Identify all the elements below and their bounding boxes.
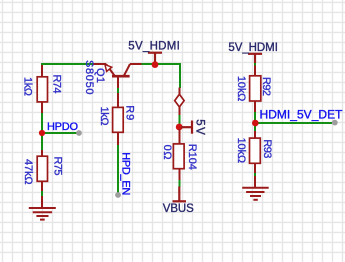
power port 5V_HDMI (left) xyxy=(148,53,162,64)
svg-text:R9: R9 xyxy=(123,105,135,120)
collector stub xyxy=(130,63,142,65)
svg-text:5V_HDMI: 5V_HDMI xyxy=(228,42,278,54)
power port 5V xyxy=(181,121,192,134)
svg-text:R92: R92 xyxy=(260,77,272,96)
ground (right) xyxy=(242,176,269,200)
power port VBUS (bar style, downward) xyxy=(173,187,187,202)
wire: HPDO stub xyxy=(42,132,77,134)
wire: R93 bottom to ground xyxy=(254,172,256,178)
svg-text:R74: R74 xyxy=(50,75,62,94)
svg-text:0Ω: 0Ω xyxy=(161,145,173,160)
wire: Q1 base to R9 xyxy=(117,87,119,95)
base bar xyxy=(112,75,130,78)
svg-text:1kΩ: 1kΩ xyxy=(98,107,110,126)
transistor Q1 (S8050) xyxy=(93,64,142,88)
no-connect diamond symbol xyxy=(175,94,184,107)
wire: junction to R104 top xyxy=(179,129,181,136)
resistor R93 xyxy=(250,131,261,173)
svg-text:5V_HDMI: 5V_HDMI xyxy=(128,40,180,52)
wire: R104 bottom to VBUS port xyxy=(179,179,181,187)
resistor R104 xyxy=(173,129,184,180)
wire: HDMI_5V_DET stub xyxy=(255,122,332,124)
svg-text:S8050: S8050 xyxy=(83,60,95,95)
open end marker (gray) HPDO xyxy=(76,130,82,136)
open end marker (gray) HDMI_5V_DET xyxy=(332,120,338,126)
emitter diagonal xyxy=(106,64,115,76)
svg-text:HPDO: HPDO xyxy=(47,121,78,133)
base lead xyxy=(117,77,119,88)
junction HPDO node xyxy=(39,130,45,136)
svg-text:R75: R75 xyxy=(52,157,64,176)
resistor R75 xyxy=(37,150,47,191)
wire: R92 bottom through HDMI_5V_DET junction to R93 xyxy=(254,111,256,132)
svg-text:5V: 5V xyxy=(193,119,205,135)
power port 5V_HDMI (right) xyxy=(248,54,262,63)
diamond bottom pin stub xyxy=(179,107,181,116)
wire: R75 bottom to ground xyxy=(41,190,43,198)
junction at 5V_HDMI xyxy=(152,61,159,68)
junction at 5V node xyxy=(176,124,183,131)
diamond top pin stub xyxy=(179,88,181,95)
resistor R74 xyxy=(37,65,47,113)
emitter arrow xyxy=(105,64,112,71)
wire: main horizontal from R74 top to Q1 emitter xyxy=(42,64,93,67)
svg-text:HPD_EN: HPD_EN xyxy=(119,152,131,195)
svg-text:1kΩ: 1kΩ xyxy=(22,77,34,96)
resistor R92 xyxy=(250,66,261,113)
wire: diamond bottom to 5V junction xyxy=(179,114,181,124)
svg-text:47kΩ: 47kΩ xyxy=(22,159,34,185)
svg-text:10kΩ: 10kΩ xyxy=(235,76,247,102)
svg-text:VBUS: VBUS xyxy=(163,203,194,215)
wire: 5V_HDMI right port to R92 xyxy=(254,62,256,67)
emitter stub xyxy=(93,63,107,65)
collector diagonal xyxy=(124,64,130,76)
resistor R9 xyxy=(113,93,124,145)
wire: Q1 collector stub to 5V_HDMI junction and over to diamond column xyxy=(141,64,180,88)
svg-text:R93: R93 xyxy=(261,139,273,158)
ground (left) xyxy=(29,196,56,220)
open end marker (gray) HPD_EN xyxy=(115,192,121,198)
wire: R74 vertical through HPDO junction to R75 xyxy=(41,112,43,151)
wire: R9 bottom to HPD_EN end xyxy=(117,145,119,196)
junction HDMI_5V_DET node xyxy=(252,120,259,127)
svg-text:10kΩ: 10kΩ xyxy=(235,138,247,164)
svg-text:HDMI_5V_DET: HDMI_5V_DET xyxy=(260,108,344,122)
svg-text:R104: R104 xyxy=(186,144,198,170)
